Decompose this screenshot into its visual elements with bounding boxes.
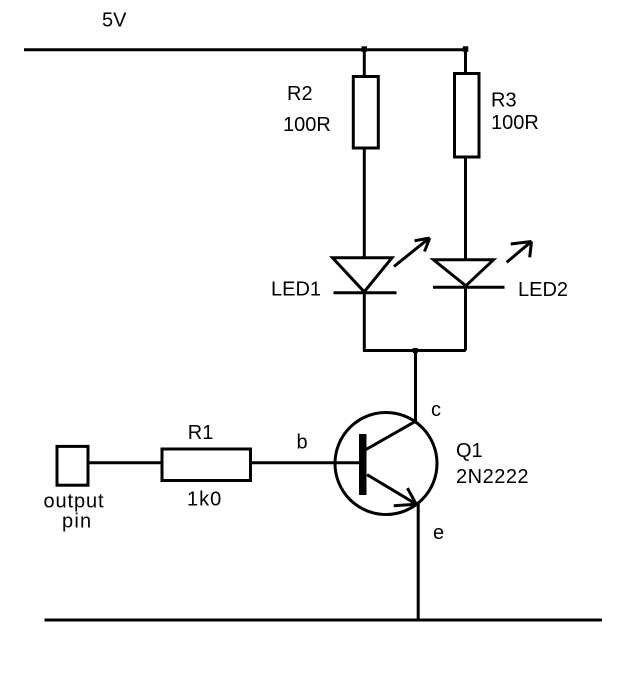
transistor Q1 circle	[335, 413, 437, 515]
svg-text:LED2: LED2	[518, 279, 568, 301]
svg-text:R2: R2	[287, 83, 313, 105]
svg-text:b: b	[297, 432, 308, 454]
output pin terminal box	[57, 446, 88, 485]
wire ground rail	[45, 619, 603, 622]
wire LED1 cathode down	[363, 293, 366, 351]
resistor R3 body	[455, 74, 480, 158]
LED2 cathode bar	[433, 286, 505, 289]
svg-text:output: output	[44, 491, 105, 513]
wire R2 to LED1 anode	[363, 148, 366, 258]
wire 5V power rail	[24, 48, 466, 51]
LED1 light arrow	[394, 238, 430, 267]
wire to collector	[414, 351, 417, 422]
svg-text:pin: pin	[62, 511, 92, 533]
svg-text:e: e	[433, 522, 444, 544]
LED1 cathode bar	[334, 291, 397, 294]
svg-text:100R: 100R	[283, 114, 331, 136]
svg-text:LED1: LED1	[271, 278, 321, 300]
transistor Q1 base bar	[359, 434, 367, 495]
transistor Q1 collector stroke	[366, 421, 416, 449]
svg-text:R1: R1	[188, 422, 214, 444]
svg-text:100R: 100R	[491, 112, 539, 134]
wire 5V rail to R2	[363, 50, 366, 77]
svg-text:c: c	[431, 399, 441, 421]
wire 5V rail to R3	[464, 50, 467, 74]
svg-text:5V: 5V	[102, 9, 127, 31]
wire emitter down	[417, 504, 420, 620]
LED2 diode triangle	[434, 260, 494, 286]
junction node at R2 top	[362, 46, 368, 52]
resistor R1 body	[162, 449, 251, 481]
LED1 diode triangle	[333, 258, 393, 292]
svg-text:Q1: Q1	[456, 440, 483, 462]
junction node at R3 top	[463, 46, 469, 52]
svg-text:1k0: 1k0	[187, 488, 222, 510]
junction node at collector tap	[413, 348, 418, 353]
svg-text:R3: R3	[491, 89, 517, 111]
resistor R2 body	[353, 77, 378, 149]
transistor Q1 emitter arrowhead	[394, 488, 417, 506]
transistor Q1 emitter stroke	[367, 475, 416, 505]
LED2 light arrow	[507, 242, 532, 263]
svg-text:2N2222: 2N2222	[456, 466, 529, 488]
wire LED join bus	[363, 349, 466, 352]
wire output pin to R1	[88, 461, 162, 464]
wire R3 to LED2 anode	[464, 157, 467, 260]
wire LED2 cathode down	[464, 287, 467, 350]
wire R1 to base	[251, 461, 360, 464]
